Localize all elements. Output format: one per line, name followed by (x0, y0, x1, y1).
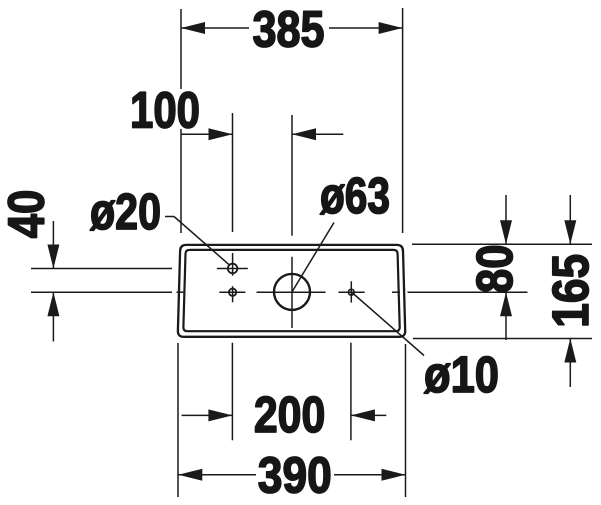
svg-text:385: 385 (253, 0, 325, 57)
svg-text:ø20: ø20 (90, 183, 161, 240)
svg-text:390: 390 (258, 447, 332, 504)
svg-text:200: 200 (254, 386, 326, 443)
svg-text:165: 165 (542, 254, 599, 328)
svg-text:ø63: ø63 (320, 167, 390, 224)
svg-text:40: 40 (0, 190, 54, 239)
svg-text:80: 80 (466, 245, 523, 294)
svg-text:100: 100 (130, 81, 200, 138)
svg-text:ø10: ø10 (424, 346, 499, 403)
